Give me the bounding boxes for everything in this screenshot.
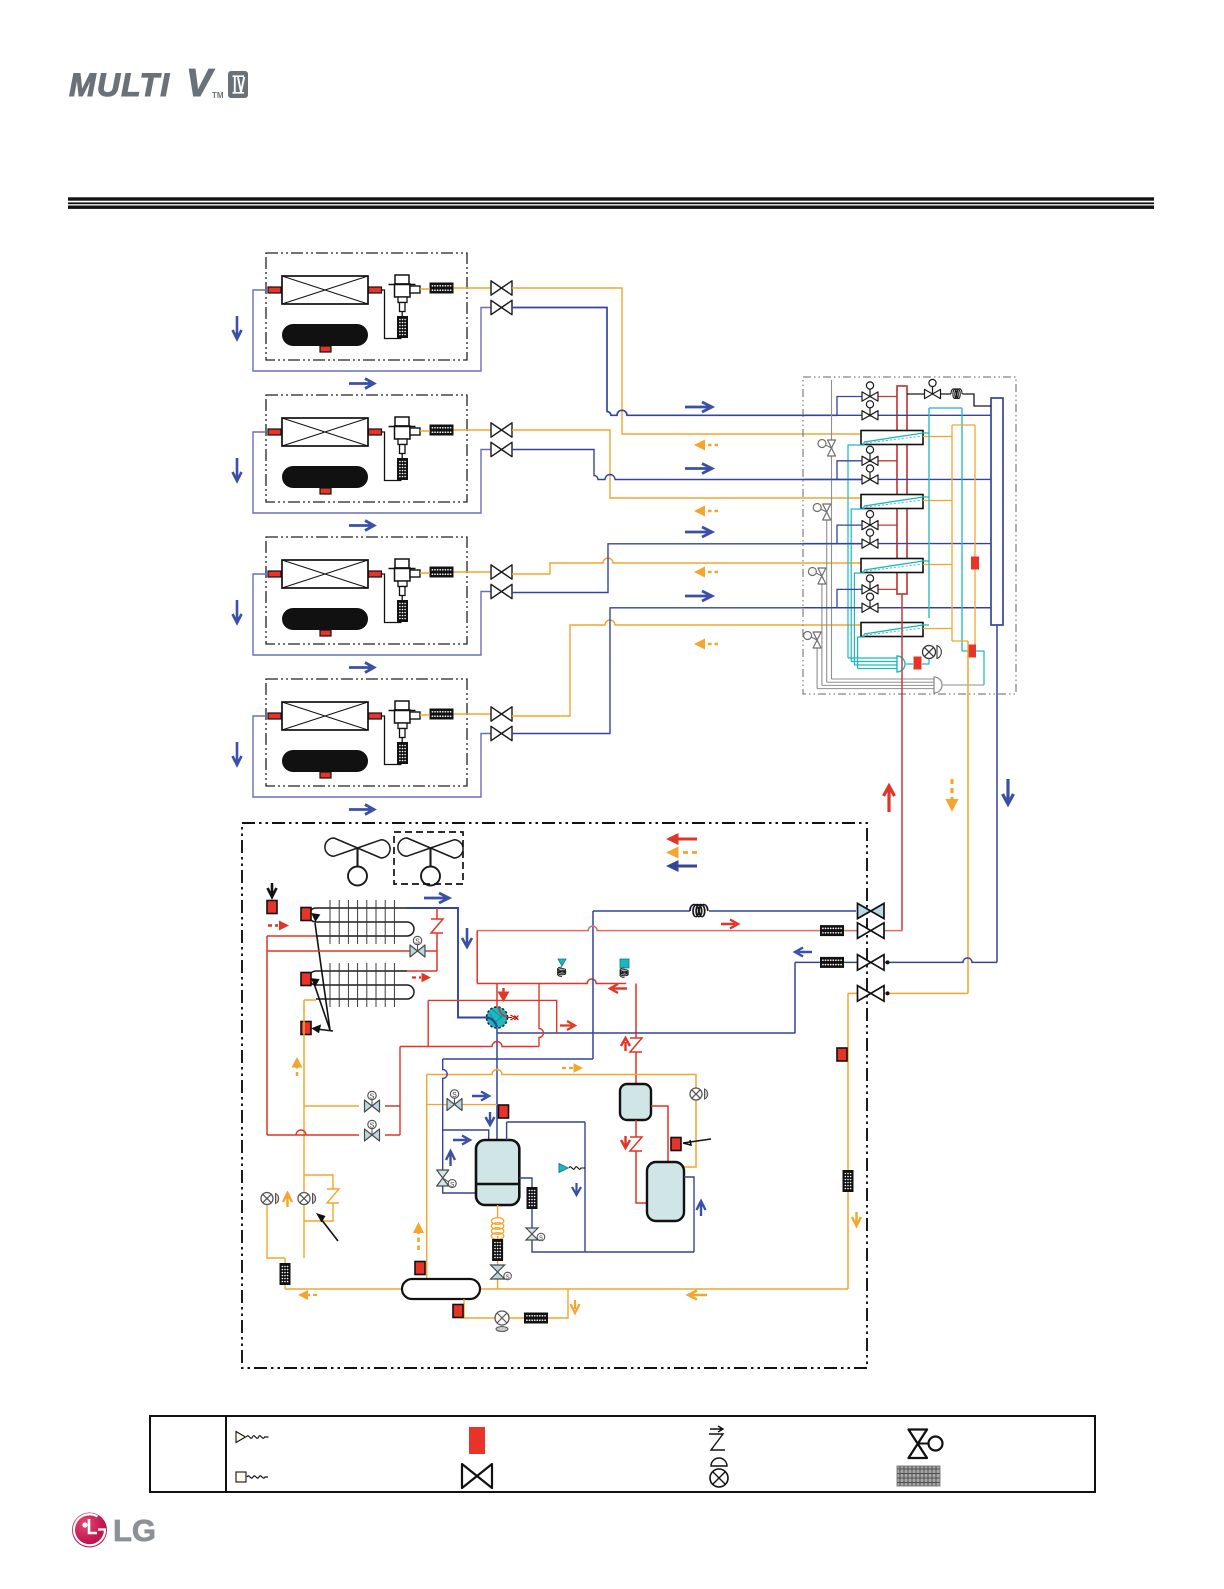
HR low-pressure selector valve 2 <box>803 478 991 480</box>
sensor under IDU4 fan <box>320 772 331 778</box>
IDU1 liquid pipe EEV to strainer to flare <box>420 288 492 289</box>
accumulator gas in 2 <box>507 1122 585 1140</box>
IDU3 liquid flare connection valve <box>491 565 512 579</box>
HR subcool heat exchanger 4 <box>861 623 923 637</box>
temp sensor left on IDU2 HX <box>268 429 281 435</box>
outdoor heat exchanger coil 1 <box>309 908 414 936</box>
defrost solenoid branch <box>267 950 437 952</box>
four-way valve <box>487 1007 519 1028</box>
indoor unit 1 box <box>266 253 467 360</box>
indoor unit 2 box <box>266 395 467 502</box>
gas flow arrow (blue) span 3 <box>685 527 712 537</box>
liquid temp sensor <box>301 1022 311 1035</box>
IDU2 internal pipe HX to EEV <box>382 432 403 481</box>
legend table <box>150 1416 1095 1492</box>
HR unit box <box>803 377 1016 694</box>
indoor unit 3 EEV body <box>389 559 421 596</box>
IDU1 gas pipe to HR valve row 1 <box>512 308 837 416</box>
HR low pressure gas header <box>991 398 1003 625</box>
IDU4 internal pipe HX to EEV <box>382 716 403 765</box>
IDU1 airflow arrow <box>233 316 242 339</box>
HR hot-gas bypass valve <box>925 379 941 398</box>
indoor unit 1 liquid-line strainer <box>430 283 454 294</box>
IDU3 gas pipe to HR valve row 3 <box>512 544 861 593</box>
oil separator tank <box>620 1084 651 1120</box>
sensor under IDU3 fan <box>320 630 331 636</box>
svg-text:MULTI: MULTI <box>69 67 170 103</box>
discharge down arrow <box>498 988 510 1002</box>
accumulator outlet coil filter valve <box>497 1205 499 1289</box>
IDU2 gas pipe loop <box>253 432 491 513</box>
LP gas service valve row <box>795 958 997 1034</box>
HX3 liquid out to orange header <box>923 564 952 566</box>
IDU4 gas pipe to HR valve row 4 <box>512 608 861 734</box>
HR service valve 3 (gray) <box>821 570 823 685</box>
HR liquid header loop <box>952 425 975 656</box>
flow legend arrow red <box>666 833 697 845</box>
temp sensor right on IDU2 HX <box>369 429 382 435</box>
HX3 teal drop to mixing gate <box>854 570 864 665</box>
temp sensor left on IDU4 HX <box>268 713 281 719</box>
HR service valve 1 (gray) <box>831 380 833 679</box>
IDU3 flow arrow below box <box>349 663 374 673</box>
sight glass <box>495 1311 509 1332</box>
indoor unit 4 liquid-line strainer <box>430 709 454 720</box>
HR high-pressure selector valve 4 <box>837 589 862 607</box>
indoor unit 4 box <box>266 679 467 786</box>
legend: expansion valve symbol <box>909 1430 943 1459</box>
HX2 liquid out to orange header <box>923 500 952 502</box>
IDU2 liquid pipe EEV to strainer to flare <box>420 430 492 431</box>
svg-text:TM: TM <box>212 91 224 100</box>
IDU2 liquid flare connection valve <box>491 423 512 437</box>
legend: stop valve symbol <box>462 1464 492 1488</box>
suction flow arrow <box>424 893 449 903</box>
coil1 temp sensor <box>301 908 311 921</box>
indoor unit 2 EEV strainer <box>397 458 408 480</box>
liquid flow arrow (orange dashed) span 1 <box>694 440 718 451</box>
temp sensor right on IDU1 HX <box>369 287 382 293</box>
liquid service valve row <box>848 993 968 1289</box>
hot-gas up arrow at oil separator feed <box>621 1038 630 1051</box>
air inlet arrow <box>268 883 277 897</box>
HR high-pressure selector valve 2 <box>837 461 862 480</box>
IDU4 gas flare connection valve <box>491 726 512 740</box>
liquid flow arrow (orange dashed) span 3 <box>694 567 718 578</box>
defrost flow arrow (red dashed) <box>268 921 289 931</box>
temp sensor right on IDU4 HX <box>369 713 382 719</box>
HX1 liquid out to orange header <box>923 436 952 438</box>
HR high pressure gas header <box>897 386 907 594</box>
accumulator bypass solenoid <box>427 1104 497 1106</box>
outdoor fan 1 <box>325 838 390 886</box>
subcooler gas return <box>684 1177 694 1252</box>
HP flow arrow up <box>884 786 895 812</box>
HR subcool heat exchanger 2 <box>861 495 923 509</box>
indoor unit 3 heat exchanger <box>282 560 368 588</box>
legend: capillary Z <box>709 1426 725 1450</box>
IDU1 flow arrow below box <box>349 379 374 389</box>
IV badge <box>228 71 248 98</box>
HR high-pressure selector valve 3 <box>837 525 862 544</box>
injection riser <box>400 984 544 1136</box>
HX3 internal teal circuit <box>864 561 929 570</box>
indoor unit 3 liquid-line strainer <box>430 567 454 578</box>
indoor unit 4 EEV strainer <box>397 742 408 764</box>
teal return to LP header <box>962 651 984 685</box>
legend: sensor rect red <box>469 1427 485 1454</box>
subcool service port <box>690 1088 708 1100</box>
sensor on liquid drop <box>837 1048 847 1061</box>
LP gas drop HR to ODU <box>996 625 998 962</box>
discharge main header <box>477 979 626 984</box>
HR liquid pump <box>923 646 942 659</box>
flow legend arrow orange dashed <box>666 847 697 859</box>
HX4 liquid out to orange header <box>923 628 952 630</box>
indoor unit 2 fan motor <box>282 466 368 488</box>
temp sensor right on IDU3 HX <box>369 571 382 577</box>
LG logo emblem <box>72 1513 107 1548</box>
suction pipe from coil1 to four-way valve <box>407 908 487 1018</box>
outdoor unit box <box>242 823 867 1368</box>
sensor under IDU2 fan <box>320 488 331 494</box>
discharge sensor 1 (NTC) <box>558 959 567 976</box>
hot gas horizontal with coil <box>593 910 856 912</box>
indoor unit 2 liquid-line strainer <box>430 425 454 436</box>
liquid bottom main <box>285 1288 848 1290</box>
temp sensor left on IDU3 HX <box>268 571 281 577</box>
indoor unit 3 fan motor <box>282 608 368 630</box>
teal lines into mixing gate <box>848 658 898 669</box>
IDU2 flow arrow below box <box>349 521 374 531</box>
legend: service port symbol <box>710 1458 728 1487</box>
HR subcool heat exchanger 3 <box>861 559 923 573</box>
coil2 temp sensor <box>301 973 311 986</box>
HX4 teal drop to mixing gate <box>858 634 864 669</box>
IDU1 gas pipe loop <box>253 290 491 371</box>
HP gas service valve row <box>477 926 902 930</box>
IDU3 internal pipe HX to EEV <box>382 574 403 623</box>
subcooler tank <box>647 1162 684 1221</box>
HR teal risers <box>929 408 962 651</box>
HR low-pressure selector valve 4 <box>803 607 991 609</box>
svg-text:S: S <box>506 1275 510 1281</box>
IDU2 liquid pipe to HR HX2 <box>512 430 861 498</box>
IDU4 liquid pipe EEV to strainer to flare <box>420 714 492 715</box>
LP flow arrow down <box>1003 779 1014 804</box>
suction main into accumulator path <box>497 1028 795 1140</box>
accumulator <box>476 1140 519 1205</box>
HR high-pressure selector valve 1 <box>837 397 862 416</box>
oil separator feed <box>630 984 642 1085</box>
liquid line to receiver riser <box>427 1070 696 1281</box>
HX1 internal teal circuit <box>864 433 929 442</box>
HR teal mixing gate <box>897 656 905 672</box>
sensor leader arrows <box>312 914 333 1032</box>
liquid flow arrow (orange dashed) span 4 <box>694 639 718 650</box>
IDU4 gas pipe loop <box>253 716 491 797</box>
title separator rules <box>68 197 1154 209</box>
red main left riser <box>266 936 268 1135</box>
gas flow arrow (blue) span 4 <box>685 591 712 601</box>
HR service valve 4 (gray) <box>816 634 818 689</box>
oil return riser <box>592 911 594 1059</box>
sensor under IDU1 fan <box>320 346 331 352</box>
gas flow arrow (blue) span 2 <box>685 464 712 474</box>
temp sensor left on IDU1 HX <box>268 287 281 293</box>
ambient temp sensor <box>267 901 277 914</box>
IDU2 airflow arrow <box>233 458 242 481</box>
liquid flow left arrow 2 <box>298 1290 317 1300</box>
IDU3 liquid pipe to HR HX3 <box>512 558 861 574</box>
HR low-pressure selector valve 1 <box>803 414 991 416</box>
suction down arrow <box>462 928 472 947</box>
IDU4 flow arrow below box <box>349 805 374 815</box>
svg-text:S: S <box>539 1236 543 1242</box>
svg-text:V: V <box>186 62 215 105</box>
IDU3 gas pipe loop <box>253 574 491 655</box>
indoor unit 1 fan motor <box>282 324 368 346</box>
legend: filter drier symbol <box>897 1466 940 1486</box>
injection line from discharge <box>428 1000 557 1033</box>
HR low-pressure selector valve 3 <box>803 543 991 545</box>
IDU2 gas pipe to HR valve row 2 <box>512 450 861 480</box>
oil return loop around accumulator <box>443 1059 593 1193</box>
IDU1 internal pipe HX to EEV <box>382 290 403 339</box>
coil1 bottom red pipe <box>267 935 316 937</box>
IDU3 gas flare connection valve <box>491 584 512 598</box>
MULTI V logo text <box>69 62 224 105</box>
indoor unit 4 fan motor <box>282 750 368 772</box>
outdoor heat exchanger coil 2 <box>309 971 414 999</box>
indoor unit 3 box <box>266 537 467 644</box>
accumulator right oil line <box>519 1122 694 1252</box>
IDU1 gas flare connection valve <box>491 300 512 314</box>
discharge riser to 4-way valve <box>496 984 498 1008</box>
liquid flow arrow (orange dashed) span 2 <box>694 506 718 517</box>
indoor unit 1 heat exchanger <box>282 276 368 304</box>
HP service valve (closed) <box>858 903 885 918</box>
legend: pressure sensor symbol <box>236 1472 268 1482</box>
arrows near accumulator <box>453 1136 470 1145</box>
sensor on HR liquid header <box>971 557 979 570</box>
indoor unit 3 EEV strainer <box>397 600 408 622</box>
HR service valve 2 (gray) <box>826 506 828 682</box>
IDU1 liquid pipe to HR HX1 <box>512 288 861 434</box>
HR hot-gas bypass pipe with capillary <box>907 394 991 406</box>
IDU2 gas flare connection valve <box>491 442 512 456</box>
coil2 liquid out <box>304 1000 316 1106</box>
IDU3 airflow arrow <box>233 600 242 623</box>
outdoor fan 2 (optional, dashed box) <box>398 838 463 886</box>
discharge left-arrow <box>610 984 627 993</box>
IDU4 liquid flare connection valve <box>491 707 512 721</box>
flow arrow <box>721 920 738 929</box>
IDU4 airflow arrow <box>233 742 242 765</box>
suction down arrow <box>486 1112 495 1125</box>
receiver <box>402 1279 480 1299</box>
IDU3 liquid pipe EEV to strainer to flare <box>420 572 492 573</box>
legend: thermistor symbol <box>236 1432 269 1443</box>
HX1 teal drop to mixing gate <box>848 442 864 658</box>
coil2 flow arrow (red dashed) <box>412 973 431 983</box>
coil2 top red pipe <box>407 970 437 972</box>
receiver bottom circuit <box>464 1289 568 1318</box>
indoor unit 4 heat exchanger <box>282 702 368 730</box>
HX2 teal drop to mixing gate <box>851 506 864 662</box>
left bypass loop / service ports <box>267 1106 359 1289</box>
indoor unit 2 heat exchanger <box>282 418 368 446</box>
indoor unit 2 EEV body <box>389 417 421 454</box>
check bypass with capillary Z <box>431 908 443 971</box>
discharge sensor 2 (pressure) <box>620 959 629 977</box>
liquid drop HR to ODU <box>967 641 969 993</box>
indoor unit 1 EEV strainer <box>397 316 408 338</box>
indoor unit 1 EEV body <box>389 275 421 312</box>
ODU liquid filter on right drop <box>843 1170 854 1192</box>
HR hot-gas bypass capillary coil <box>951 389 962 399</box>
IDU4 liquid pipe to HR HX4 <box>512 620 861 716</box>
HR subcool heat exchanger 1 <box>861 431 923 445</box>
svg-text:LG: LG <box>113 1513 156 1548</box>
defrost return branch <box>267 1134 400 1136</box>
indoor unit 4 EEV body <box>389 701 421 738</box>
flow legend arrow blue <box>666 860 697 872</box>
liquid flow arrow down (dashed) <box>946 779 959 812</box>
HX4 internal teal circuit <box>864 625 929 634</box>
HP gas drop HR to ODU <box>901 594 903 931</box>
HR oil mixing gate (gray) <box>934 677 942 693</box>
liquid flow arrow dashed <box>562 1063 583 1073</box>
check valve capillary symbol <box>559 1164 585 1173</box>
IDU1 liquid flare connection valve <box>491 281 512 295</box>
liquid up arrow dashed (left loop) <box>292 1057 303 1076</box>
gas flow arrow (blue) span 1 <box>685 402 712 412</box>
sensor at mixing gate outlet <box>906 658 929 664</box>
sensor on suction <box>499 1105 509 1118</box>
oil sep bottom return with capillary <box>630 1120 647 1203</box>
HX2 internal teal circuit <box>864 497 929 506</box>
oil sep to subcooler <box>651 1106 668 1163</box>
